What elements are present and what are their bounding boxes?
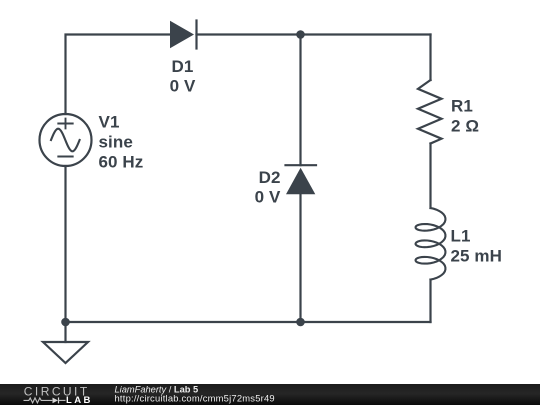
diode D1 cathode bar: [195, 21, 197, 49]
wire V1 bottom to bottom-left corner: [64, 166, 66, 322]
footer black bar: [0, 384, 540, 405]
V1 plus sign: [58, 119, 72, 129]
svg-text:D2: D2: [259, 168, 281, 187]
wire top-left: V1 top to D1 anode: [66, 35, 171, 115]
svg-text:LAB: LAB: [66, 395, 93, 405]
wire bottom rail: [66, 321, 431, 323]
voltage source V1 circle: [40, 114, 92, 166]
wire R1 bottom to L1 top: [429, 144, 431, 209]
node B dot (bottom-left junction): [61, 318, 70, 327]
svg-text:0 V: 0 V: [170, 77, 196, 96]
node A dot (top junction): [296, 30, 305, 39]
diode D2 triangle: [286, 168, 315, 194]
wire L1 bottom to bottom-right corner: [429, 280, 431, 322]
resistor R1 zigzag: [418, 80, 442, 144]
svg-text:D1: D1: [172, 57, 194, 76]
svg-text:V1: V1: [99, 112, 120, 131]
ground stub wire: [64, 322, 66, 342]
wire right rail top: corner to R1: [429, 35, 431, 81]
diode D1 triangle: [170, 21, 194, 48]
diode D2 cathode bar: [286, 164, 317, 166]
node C dot (bottom-middle junction): [296, 318, 305, 327]
svg-text:sine: sine: [99, 132, 133, 151]
svg-text:R1: R1: [451, 97, 473, 116]
wire D1 cathode to top-right corner: [197, 33, 431, 35]
svg-text:http://circuitlab.com/cmm5j72m: http://circuitlab.com/cmm5j72ms5r49: [115, 393, 275, 404]
ground symbol triangle: [43, 342, 88, 363]
svg-text:0 V: 0 V: [255, 187, 281, 206]
V1 minus sign: [58, 156, 72, 158]
logo mini diode: [53, 398, 59, 404]
logo mini resistor zigzag: [24, 398, 53, 403]
svg-text:2 Ω: 2 Ω: [451, 117, 479, 136]
V1 sine wave: [51, 129, 80, 152]
wire node A down to D2 cathode: [299, 35, 301, 166]
svg-text:60 Hz: 60 Hz: [99, 152, 144, 171]
inductor L1 coil: [416, 208, 446, 280]
svg-text:25 mH: 25 mH: [451, 247, 503, 266]
svg-text:L1: L1: [451, 227, 471, 246]
wire D2 anode down to bottom rail: [299, 194, 301, 322]
